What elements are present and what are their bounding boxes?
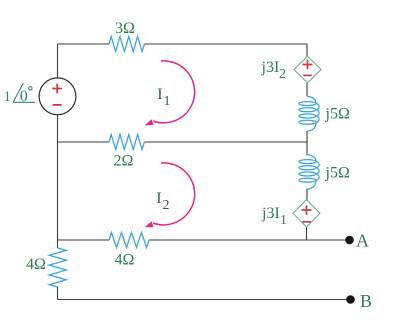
wire third row (4Ω row to node A) <box>58 239 351 241</box>
svg-text:I: I <box>157 86 162 103</box>
svg-text:1: 1 <box>280 213 287 228</box>
inductor j5Ω lower <box>299 155 319 190</box>
voltage source Vs 1∠0° <box>39 78 76 115</box>
wire top (node between source + and 3Ω, to j3I2) <box>58 43 308 45</box>
mesh current I1 arrow (clockwise arc) <box>145 61 195 125</box>
label I2 <box>156 190 169 213</box>
svg-text:j5Ω: j5Ω <box>325 165 350 182</box>
wire bottom row (to node B) <box>58 299 351 301</box>
svg-text:4Ω: 4Ω <box>115 252 135 269</box>
resistor 4Ω vertical <box>49 248 66 287</box>
svg-text:2Ω: 2Ω <box>114 153 134 170</box>
resistor 2Ω <box>109 135 145 150</box>
svg-text:I: I <box>156 190 161 207</box>
svg-text:B: B <box>360 291 372 311</box>
dependent source j3I1 (diamond) <box>293 200 320 227</box>
mesh current I2 arrow (clockwise arc) <box>145 163 195 227</box>
svg-text:3Ω: 3Ω <box>115 20 135 37</box>
svg-text:j3I: j3I <box>261 59 280 76</box>
svg-text:2: 2 <box>279 67 286 82</box>
node A terminal dot <box>345 236 354 245</box>
label 1∠0° <box>4 83 36 105</box>
resistor 4Ω horizontal <box>109 233 149 248</box>
label I1 <box>157 86 170 109</box>
svg-text:2: 2 <box>163 198 170 213</box>
label j3I1 <box>261 205 287 228</box>
node B terminal dot <box>346 295 355 304</box>
svg-text:1: 1 <box>4 89 12 105</box>
label j3I2 <box>261 59 287 82</box>
dependent source j3I2 (diamond) <box>294 56 321 83</box>
wire left vertical <box>57 44 59 300</box>
svg-text:0: 0 <box>20 88 28 105</box>
svg-text:1: 1 <box>164 94 171 109</box>
svg-text:A: A <box>356 231 369 251</box>
svg-text:j5Ω: j5Ω <box>325 106 350 123</box>
svg-text:j3I: j3I <box>261 205 280 222</box>
wire middle row (2Ω row) <box>58 141 308 143</box>
inductor j5Ω upper <box>299 96 319 131</box>
svg-text:4Ω: 4Ω <box>26 256 46 273</box>
wire right vertical segments <box>306 44 309 240</box>
resistor 3Ω <box>109 37 145 52</box>
